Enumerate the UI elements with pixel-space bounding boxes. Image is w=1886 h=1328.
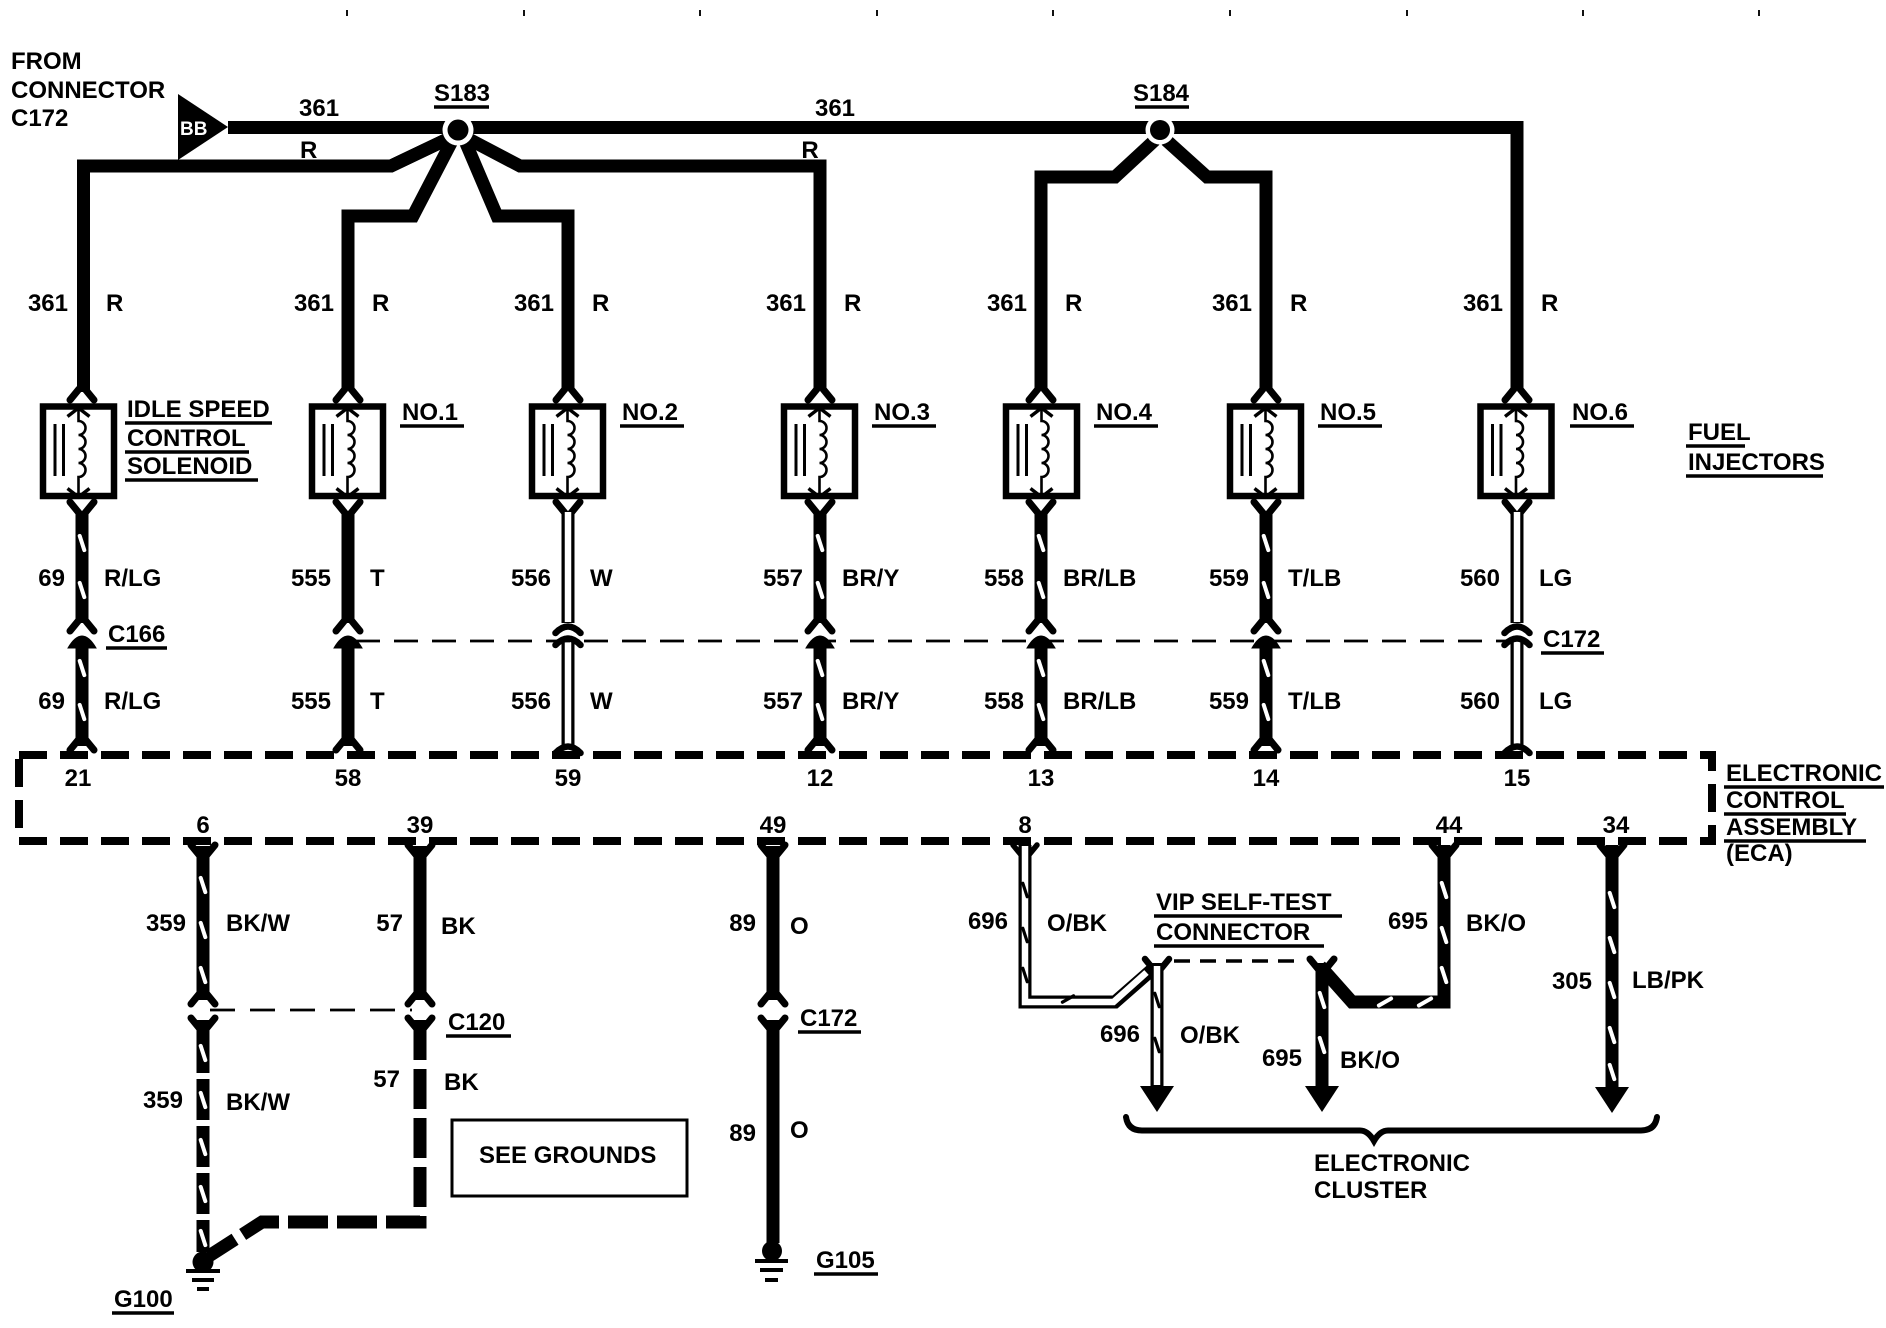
svg-text:T: T (370, 688, 385, 715)
svg-text:C166: C166 (108, 621, 165, 648)
svg-text:557: 557 (763, 565, 803, 592)
wire 305 LB/PK (pin 34 to cluster arrow) (1606, 845, 1619, 1089)
svg-text:R: R (372, 290, 389, 317)
wire 359 BK/W upper (pin 6 to C120) (197, 846, 210, 1000)
injector NO.1 (336, 389, 345, 400)
svg-text:BR/LB: BR/LB (1063, 688, 1136, 715)
svg-text:555: 555 (291, 688, 331, 715)
svg-text:15: 15 (1504, 765, 1531, 792)
injector NO.5 (1254, 389, 1263, 400)
svg-text:T/LB: T/LB (1288, 688, 1341, 715)
svg-text:R: R (106, 290, 123, 317)
svg-text:558: 558 (984, 565, 1024, 592)
wire 695 BK/O (pin 44 to VIP connector) (1320, 845, 1444, 1002)
svg-text:8: 8 (1018, 812, 1031, 839)
svg-text:SEE GROUNDS: SEE GROUNDS (479, 1142, 656, 1169)
wire S183 to injector NO.1 (348, 141, 452, 389)
svg-text:NO.5: NO.5 (1320, 399, 1376, 426)
svg-text:NO.2: NO.2 (622, 399, 678, 426)
svg-text:361: 361 (514, 290, 554, 317)
svg-text:CONNECTOR: CONNECTOR (11, 77, 165, 104)
svg-text:ASSEMBLY: ASSEMBLY (1726, 814, 1857, 841)
svg-text:LG: LG (1539, 565, 1572, 592)
svg-text:BK: BK (444, 1069, 479, 1096)
svg-text:695: 695 (1388, 908, 1428, 935)
svg-text:BR/Y: BR/Y (842, 688, 899, 715)
wire 89 O lower (C172 to G105) (767, 1020, 780, 1243)
wire 359 BK/W lower (C120 to G100, dashed hatch) (191, 1018, 200, 1029)
svg-text:R: R (1290, 290, 1307, 317)
wire S184 to injector NO.4 (1041, 140, 1155, 389)
svg-text:R: R (1541, 290, 1558, 317)
svg-text:39: 39 (407, 812, 434, 839)
svg-text:361: 361 (1212, 290, 1252, 317)
svg-text:361: 361 (815, 95, 855, 122)
svg-text:G105: G105 (816, 1247, 875, 1274)
connector C120 dashed line (210, 1009, 412, 1012)
svg-text:O: O (790, 913, 809, 940)
svg-text:R: R (1065, 290, 1082, 317)
svg-text:W: W (590, 688, 613, 715)
svg-text:560: 560 (1460, 688, 1500, 715)
svg-text:T/LB: T/LB (1288, 565, 1341, 592)
injector NO.3 (808, 389, 817, 400)
svg-text:NO.6: NO.6 (1572, 399, 1628, 426)
wire 361 main feed from triangle to NO.6 (228, 128, 1517, 390)
svg-text:C172: C172 (11, 105, 68, 132)
svg-text:R: R (844, 290, 861, 317)
svg-text:69: 69 (38, 565, 65, 592)
svg-text:CONTROL: CONTROL (1726, 787, 1845, 814)
svg-text:R/LG: R/LG (104, 565, 161, 592)
svg-text:BB: BB (180, 119, 207, 140)
svg-text:NO.1: NO.1 (402, 399, 458, 426)
svg-text:S184: S184 (1133, 80, 1190, 107)
wire 695 BK/O lower (VIP to cluster arrow) (1316, 963, 1329, 1087)
wire S184 to injector NO.5 (1166, 140, 1266, 389)
svg-text:BR/Y: BR/Y (842, 565, 899, 592)
VIP connector right terminal (1310, 959, 1319, 970)
svg-text:NO.3: NO.3 (874, 399, 930, 426)
ground G105 (762, 1241, 782, 1261)
svg-text:58: 58 (335, 765, 362, 792)
svg-text:BK/W: BK/W (226, 910, 290, 937)
svg-text:LG: LG (1539, 688, 1572, 715)
svg-text:BK/O: BK/O (1466, 910, 1526, 937)
svg-text:305: 305 (1552, 968, 1592, 995)
svg-text:558: 558 (984, 688, 1024, 715)
svg-text:(ECA): (ECA) (1726, 840, 1793, 867)
wire S183 to injector NO.2 (465, 141, 568, 389)
svg-text:SOLENOID: SOLENOID (127, 453, 252, 480)
svg-text:89: 89 (729, 1120, 756, 1147)
svg-text:556: 556 (511, 688, 551, 715)
scan tick marks (346, 10, 348, 16)
svg-text:FROM: FROM (11, 48, 82, 75)
idle speed control solenoid (70, 389, 79, 400)
splice S184 (1146, 116, 1175, 145)
wire 57 BK upper (pin 39 to C120) (414, 846, 427, 1000)
svg-text:BK/W: BK/W (226, 1089, 290, 1116)
svg-text:IDLE SPEED: IDLE SPEED (127, 396, 270, 423)
svg-text:T: T (370, 565, 385, 592)
svg-text:57: 57 (373, 1066, 400, 1093)
svg-text:560: 560 (1460, 565, 1500, 592)
connector-from-C172 triangle BB (178, 94, 228, 160)
svg-text:CONTROL: CONTROL (127, 425, 246, 452)
svg-text:49: 49 (760, 812, 787, 839)
svg-text:556: 556 (511, 565, 551, 592)
svg-text:INJECTORS: INJECTORS (1688, 449, 1825, 476)
VIP connector dashed line (1174, 959, 1300, 963)
svg-text:C120: C120 (448, 1009, 505, 1036)
svg-text:59: 59 (555, 765, 582, 792)
svg-text:361: 361 (299, 95, 339, 122)
svg-text:57: 57 (376, 910, 403, 937)
svg-text:ELECTRONIC: ELECTRONIC (1726, 760, 1882, 787)
wire 696 O/BK (pin 8 to VIP connector) (1013, 845, 1022, 856)
svg-text:BK: BK (441, 913, 476, 940)
svg-text:C172: C172 (1543, 626, 1600, 653)
brace electronic cluster (1126, 1117, 1657, 1141)
svg-text:359: 359 (143, 1087, 183, 1114)
connector C172 (bottom) (761, 1018, 770, 1029)
wire R branch: S183 to NO.3 (461, 135, 820, 389)
svg-text:R: R (300, 137, 317, 164)
injector NO.2 (556, 389, 565, 400)
svg-text:69: 69 (38, 688, 65, 715)
ground G100 (193, 1252, 214, 1273)
svg-text:89: 89 (729, 910, 756, 937)
svg-text:6: 6 (196, 812, 209, 839)
svg-text:555: 555 (291, 565, 331, 592)
svg-text:BK/O: BK/O (1340, 1047, 1400, 1074)
VIP connector left terminal (1145, 959, 1154, 970)
svg-text:361: 361 (294, 290, 334, 317)
wire 57 BK lower (dashed, elbow to ground) (408, 1018, 417, 1029)
svg-text:O: O (790, 1117, 809, 1144)
svg-text:R: R (801, 137, 818, 164)
svg-text:O/BK: O/BK (1047, 910, 1108, 937)
svg-text:G100: G100 (114, 1286, 173, 1313)
svg-text:BR/LB: BR/LB (1063, 565, 1136, 592)
svg-text:CLUSTER: CLUSTER (1314, 1177, 1427, 1204)
connector line C166/C172 (dashed) (356, 640, 1508, 643)
SEE GROUNDS box (452, 1120, 687, 1196)
svg-text:FUEL: FUEL (1688, 419, 1751, 446)
svg-text:W: W (590, 565, 613, 592)
svg-text:361: 361 (28, 290, 68, 317)
svg-text:CONNECTOR: CONNECTOR (1156, 919, 1310, 946)
svg-text:S183: S183 (434, 80, 490, 107)
svg-text:559: 559 (1209, 688, 1249, 715)
svg-text:ELECTRONIC: ELECTRONIC (1314, 1150, 1470, 1177)
svg-text:R: R (592, 290, 609, 317)
svg-text:559: 559 (1209, 565, 1249, 592)
svg-text:44: 44 (1436, 812, 1463, 839)
svg-text:21: 21 (65, 765, 92, 792)
svg-text:R/LG: R/LG (104, 688, 161, 715)
svg-text:34: 34 (1603, 812, 1630, 839)
svg-text:LB/PK: LB/PK (1632, 967, 1705, 994)
svg-text:VIP SELF-TEST: VIP SELF-TEST (1156, 889, 1332, 916)
svg-text:557: 557 (763, 688, 803, 715)
svg-text:C172: C172 (800, 1005, 857, 1032)
svg-text:695: 695 (1262, 1045, 1302, 1072)
svg-text:14: 14 (1253, 765, 1280, 792)
svg-text:696: 696 (968, 908, 1008, 935)
injector NO.4 (1029, 389, 1038, 400)
injector NO.6 (1505, 389, 1514, 400)
svg-text:13: 13 (1028, 765, 1055, 792)
svg-text:361: 361 (987, 290, 1027, 317)
svg-text:696: 696 (1100, 1021, 1140, 1048)
svg-text:359: 359 (146, 910, 186, 937)
svg-text:O/BK: O/BK (1180, 1022, 1241, 1049)
svg-text:361: 361 (1463, 290, 1503, 317)
wire 89 O upper (pin 49 to C172) (767, 846, 780, 1000)
svg-text:361: 361 (766, 290, 806, 317)
splice S183 (443, 115, 474, 146)
svg-text:NO.4: NO.4 (1096, 399, 1153, 426)
wire R branch: S183 to solenoid (84, 135, 457, 392)
svg-text:12: 12 (807, 765, 834, 792)
ECA dashed box (19, 755, 1712, 841)
wire 696 O/BK lower (VIP to cluster arrow) (1151, 963, 1164, 1087)
